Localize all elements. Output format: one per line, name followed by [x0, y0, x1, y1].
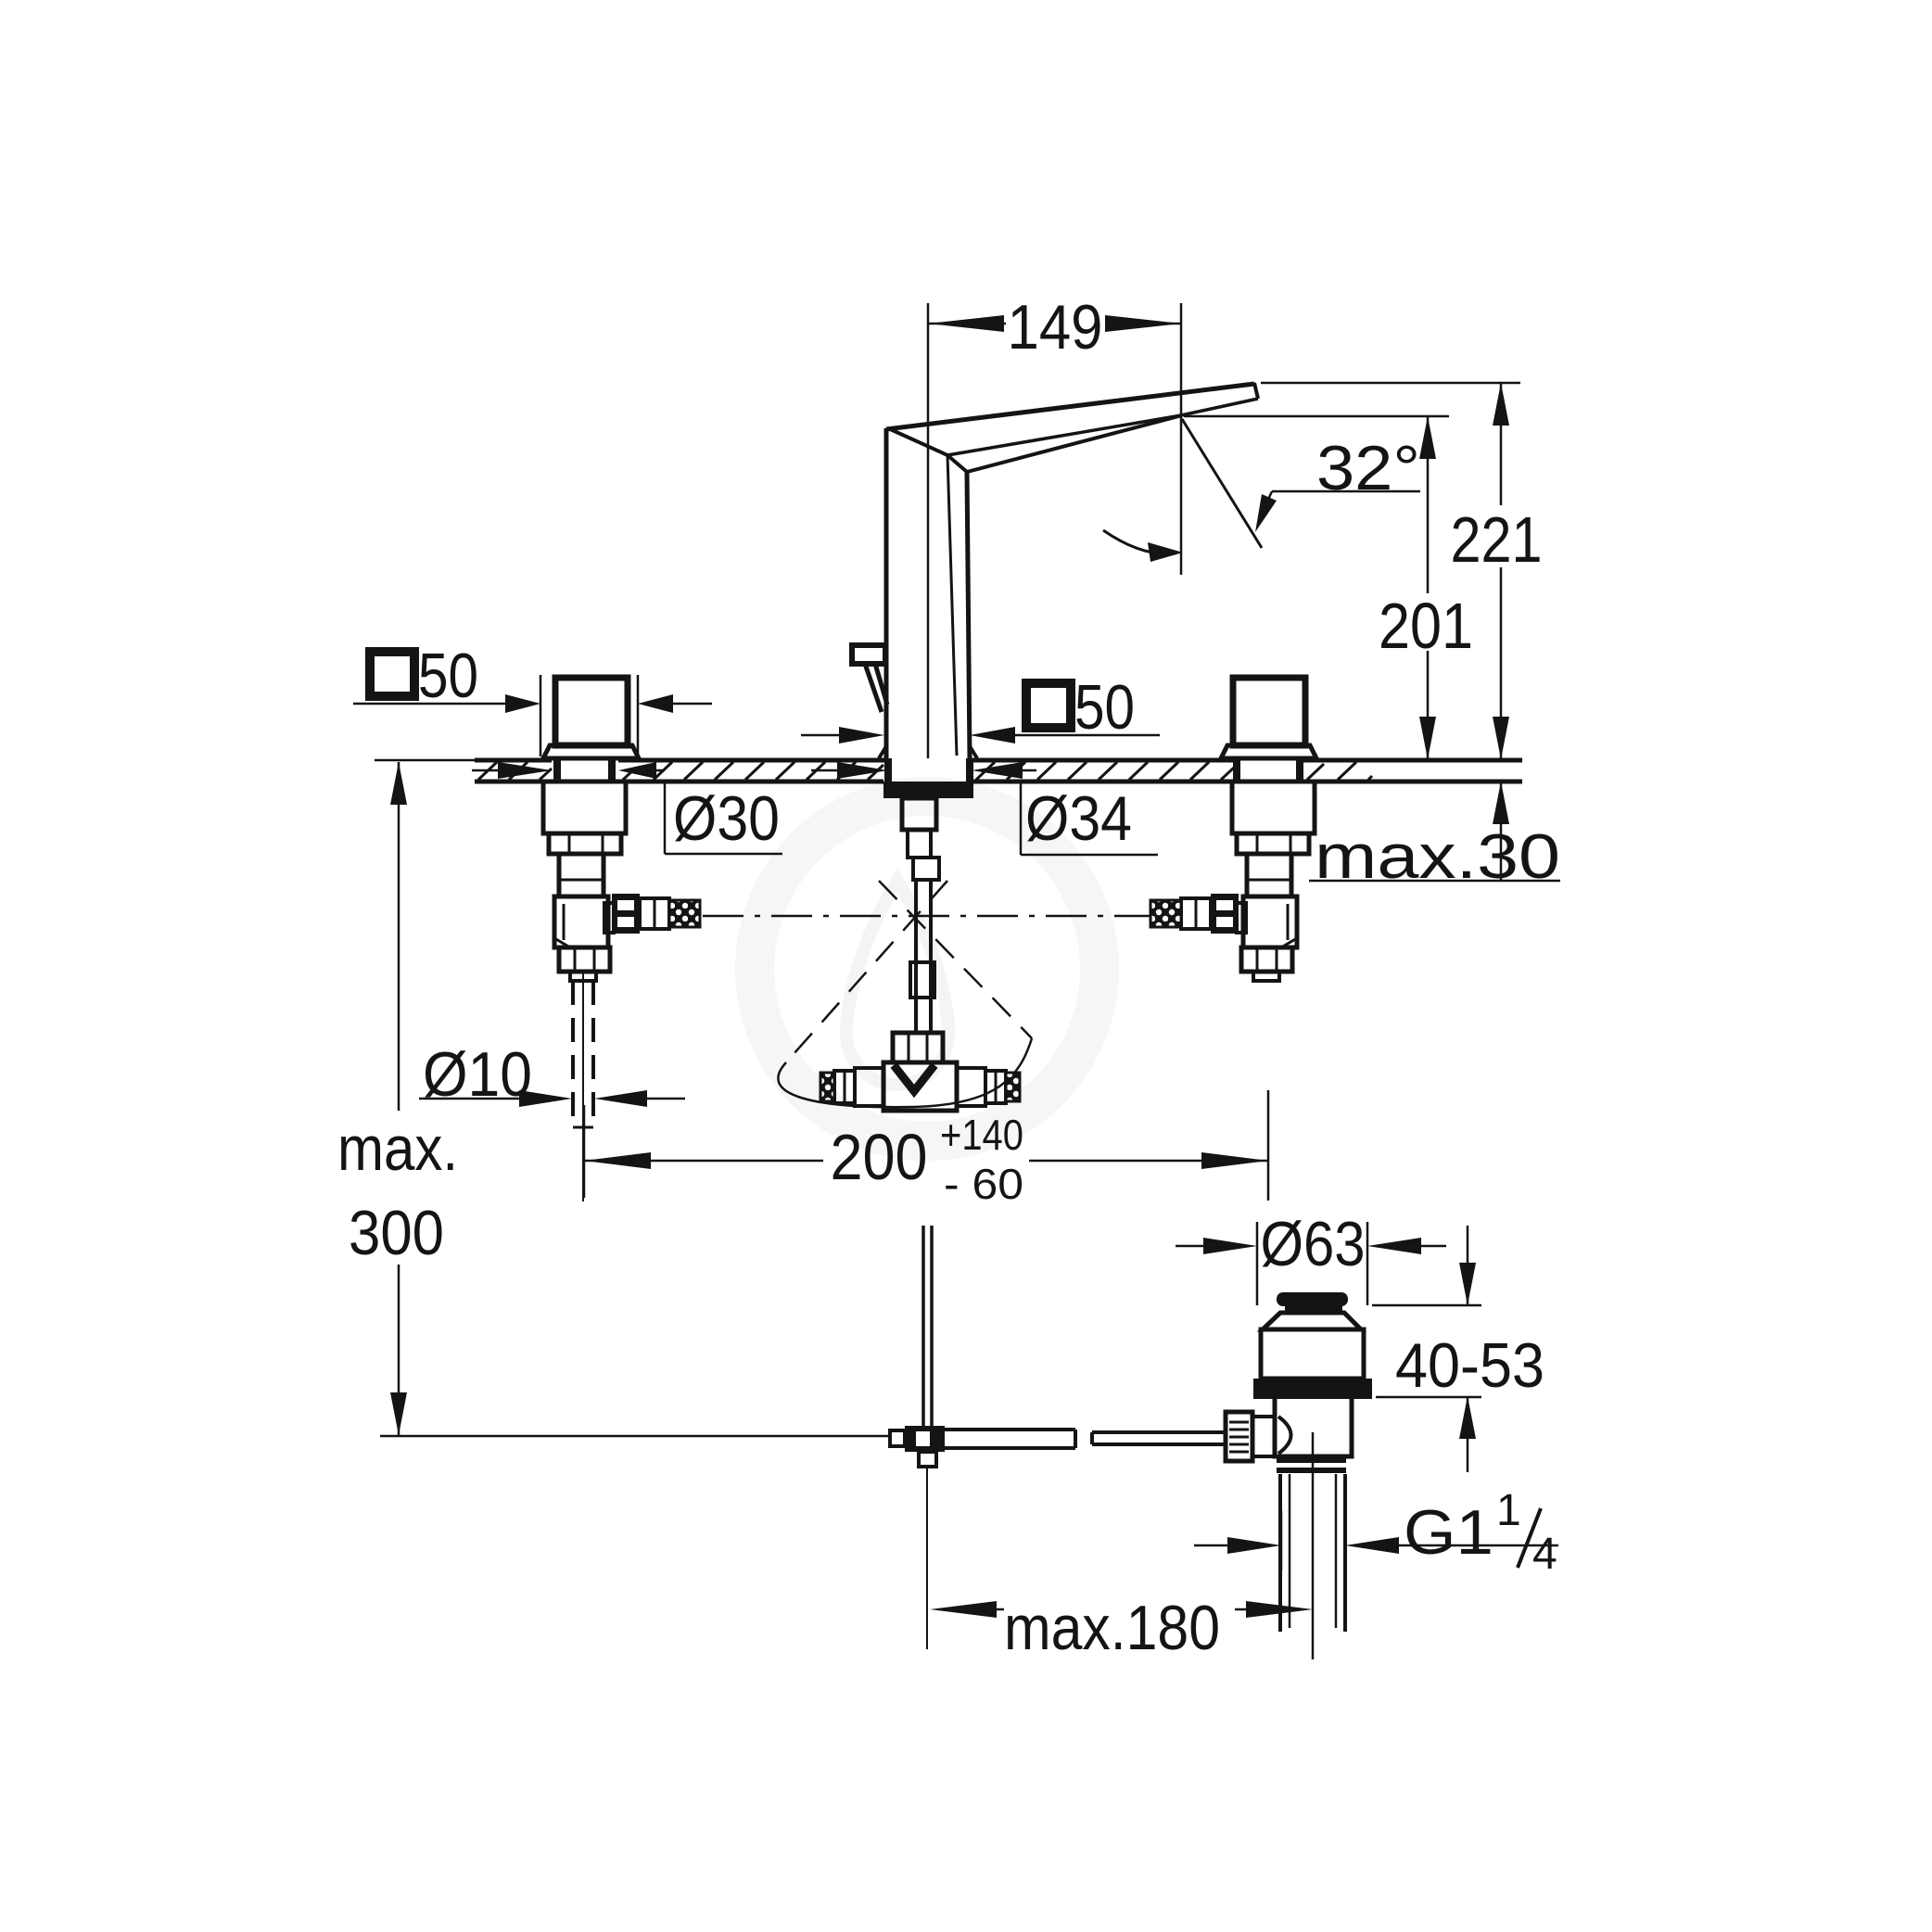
countertop hatching: [478, 762, 1372, 780]
rod centerline: [582, 972, 584, 1201]
svg-text:221: 221: [1451, 503, 1543, 576]
watermark drop: [846, 881, 948, 1085]
center tee nut: [893, 1033, 943, 1062]
dim max300: [398, 762, 400, 1111]
angle 32 slant line: [1182, 419, 1262, 548]
drain valve knob stub: [1252, 1417, 1275, 1456]
center shank through counter: [888, 758, 970, 783]
center shank sleeve: [902, 798, 936, 830]
faucet body inner line: [947, 455, 957, 756]
right handle body: [1233, 678, 1305, 745]
faucet apex facet: [888, 428, 947, 455]
drain valve washer: [1253, 1379, 1372, 1399]
faucet wedge joint: [947, 455, 967, 472]
right valve angle fitting: [1243, 896, 1297, 947]
faucet lever: [852, 645, 885, 664]
svg-text:40-53: 40-53: [1395, 1330, 1544, 1401]
angle 32 underline and leader: [1272, 490, 1420, 493]
left handle skirt: [543, 745, 639, 758]
tee left arm: [855, 1068, 883, 1106]
center tee cone: [894, 1065, 934, 1091]
right valve tube: [1247, 854, 1291, 896]
svg-text:50: 50: [1074, 672, 1135, 743]
left handle extension lines: [540, 675, 542, 756]
dim 200 +140 -60: [583, 1105, 586, 1198]
faucet spout top edge: [886, 384, 1254, 429]
label dia34: [1020, 782, 1023, 855]
hose swing envelope dashes: [786, 881, 947, 1062]
svg-text:Ø30: Ø30: [673, 783, 780, 854]
square-50 center dim arrows: [801, 734, 841, 737]
drain valve lower body: [1275, 1395, 1352, 1456]
right valve shank through counter: [1237, 758, 1300, 783]
tee right arm: [957, 1068, 985, 1106]
svg-text:+140: +140: [940, 1111, 1023, 1159]
countertop left extension to max300: [375, 759, 475, 762]
cross fitting block: [905, 1426, 945, 1452]
center shank segment: [908, 830, 931, 858]
hose centerline dash-dot: [703, 915, 1150, 918]
left valve body below counter: [543, 782, 626, 833]
right valve stub: [1253, 972, 1279, 981]
drain valve centerline: [1312, 1432, 1315, 1659]
rod extension line down: [926, 1467, 928, 1649]
svg-text:149: 149: [1008, 292, 1103, 362]
svg-text:201: 201: [1379, 590, 1473, 662]
left valve outlet stub: [604, 903, 614, 933]
dim 221: [1500, 383, 1503, 505]
dim 40-53: [1372, 1304, 1481, 1307]
hose swing envelope curve: [778, 1038, 1032, 1107]
hole dia 34 arrows: [811, 769, 839, 772]
label dia30: [664, 782, 667, 854]
center shank coupler: [913, 858, 939, 880]
center shank rod: [916, 880, 931, 1033]
horizontal rod segment 2: [1092, 1432, 1227, 1444]
dim G1 1/4: [1280, 1511, 1283, 1570]
faucet spout bottom edge: [967, 415, 1182, 472]
center tee body: [883, 1062, 957, 1111]
svg-text:300: 300: [349, 1198, 444, 1268]
svg-text:- 60: - 60: [944, 1160, 1023, 1208]
faucet spout tip face: [1254, 383, 1258, 399]
svg-text:G1: G1: [1404, 1497, 1493, 1568]
left hose nut: [612, 894, 640, 934]
drain valve flange: [1263, 1313, 1361, 1329]
watermark ring: [755, 796, 1099, 1141]
countertop top line: [475, 760, 1522, 782]
left valve stub: [570, 972, 596, 981]
square-50 left dim line and arrows: [353, 703, 507, 705]
right handle skirt: [1221, 745, 1316, 758]
drain valve tailpipe: [1280, 1474, 1345, 1632]
right valve outlet stub: [1237, 903, 1246, 933]
extension line spout tip level: [1261, 382, 1520, 385]
faucet body left edge: [884, 428, 889, 758]
left hose braid: [669, 900, 700, 927]
pull rod vertical: [923, 1226, 932, 1428]
right valve bottom nut: [1241, 947, 1292, 972]
drain valve knob: [1226, 1412, 1252, 1461]
square-50 label left: [370, 652, 414, 696]
hole dia 30 arrows: [472, 769, 500, 772]
svg-text:max.: max.: [337, 1113, 458, 1184]
left handle body: [555, 678, 628, 745]
svg-text:Ø63: Ø63: [1261, 1209, 1366, 1279]
dim 149 line: [928, 323, 1006, 325]
faucet body right edge: [967, 472, 970, 758]
cross fitting stub: [890, 1430, 905, 1446]
angle 32 arc arrow: [1103, 530, 1176, 553]
svg-text:1: 1: [1496, 1486, 1521, 1535]
svg-text:200: 200: [831, 1121, 928, 1193]
left valve tube: [559, 854, 604, 896]
svg-text:50: 50: [418, 641, 478, 711]
right valve body below counter: [1232, 782, 1315, 833]
center shank flange: [883, 782, 973, 798]
right hose fitting: [1181, 898, 1211, 929]
dashed rod dia10: [573, 981, 593, 1127]
dim dia63: [1256, 1222, 1259, 1305]
center shank sleeve2: [910, 962, 934, 998]
dim 201: [1427, 416, 1430, 593]
svg-text:4: 4: [1532, 1530, 1557, 1579]
drain valve cap: [1277, 1292, 1348, 1306]
left valve angle fitting: [554, 896, 608, 947]
drain valve body: [1261, 1329, 1364, 1379]
faucet mid facet line: [947, 399, 1258, 455]
svg-text:Ø34: Ø34: [1025, 783, 1132, 854]
pop-up rod horizontal line: [380, 1435, 892, 1438]
right valve nut: [1237, 833, 1309, 854]
svg-text:32°: 32°: [1316, 433, 1420, 503]
drain valve seat arc: [1278, 1417, 1291, 1454]
horizontal rod segment 1: [945, 1430, 1075, 1448]
left valve nut: [549, 833, 621, 854]
left valve shank through counter: [557, 758, 612, 783]
square-50 label center: [1026, 683, 1071, 728]
right hose nut: [1211, 894, 1239, 934]
cross fitting lower stub: [919, 1452, 936, 1467]
left hose fitting: [640, 898, 669, 929]
extension line spout mouth level: [1184, 415, 1449, 418]
dim 149 extension lines: [927, 303, 930, 758]
drain valve bottom flange: [1277, 1460, 1346, 1470]
right hose braid: [1150, 900, 1181, 927]
left valve bottom nut: [559, 947, 610, 972]
faucet base flares: [879, 746, 977, 758]
svg-text:max.180: max.180: [1004, 1593, 1220, 1663]
dim max.30: [1500, 782, 1503, 881]
